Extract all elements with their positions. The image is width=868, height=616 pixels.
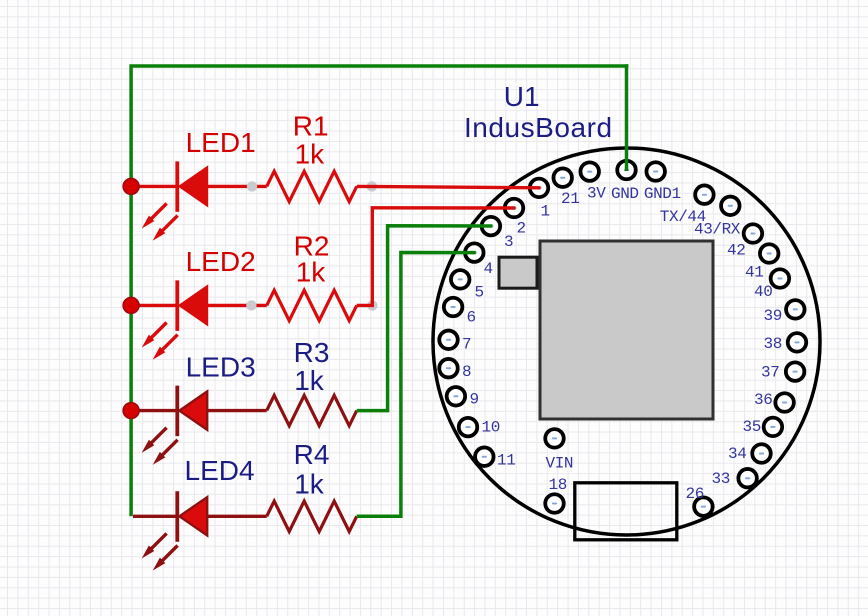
terminal dot R2 right (367, 300, 377, 310)
resistor R4 zigzag (267, 501, 357, 531)
terminal dot R1 right (367, 181, 377, 191)
svg-text:42: 42 (727, 242, 745, 260)
svg-text:35: 35 (743, 418, 761, 436)
pin 26 (694, 497, 713, 515)
svg-text:37: 37 (761, 364, 779, 382)
LED3 emission arrow b (154, 440, 178, 464)
wire: LED3 anode to R3 (207, 409, 267, 412)
svg-text:2: 2 (517, 220, 526, 238)
wire: LED2 row horizontal (131, 304, 175, 307)
U1 USB connector (575, 483, 677, 540)
svg-text:VIN: VIN (546, 455, 574, 473)
wire: LED4 anode to R4 (207, 515, 267, 518)
LED1 emission arrow b (154, 216, 178, 240)
LED1 triangle (179, 167, 207, 205)
svg-text:5: 5 (475, 283, 484, 301)
svg-text:U1: U1 (504, 81, 540, 112)
LED2 emission arrow b (154, 335, 178, 359)
svg-text:3V: 3V (587, 185, 606, 203)
pin 4 (465, 243, 484, 262)
pin 36 (775, 393, 794, 412)
LED2 emission arrow a (143, 323, 167, 347)
U1 board outline circle (433, 148, 820, 535)
svg-text:39: 39 (764, 307, 782, 325)
pin 35 (764, 418, 783, 437)
svg-text:6: 6 (467, 308, 476, 326)
wire: GND left rail and top run (131, 66, 628, 516)
pin 43/RX (721, 197, 740, 216)
svg-text:R4: R4 (294, 439, 330, 470)
pin 18 (545, 494, 564, 513)
wire: R1 to pin 1 (357, 186, 541, 187)
resistor R2 zigzag (267, 290, 357, 320)
svg-text:1: 1 (541, 203, 550, 221)
svg-text:10: 10 (482, 418, 500, 436)
svg-text:IndusBoard: IndusBoard (464, 112, 613, 143)
pin 8 (439, 359, 458, 378)
svg-text:1k: 1k (294, 469, 325, 500)
LED1 cathode bar (175, 161, 179, 212)
junction node LED2 (123, 297, 139, 313)
svg-text:36: 36 (754, 391, 772, 409)
svg-text:41: 41 (745, 263, 763, 281)
pin 21 (553, 168, 572, 187)
pin 37 (786, 362, 805, 381)
svg-text:21: 21 (561, 190, 579, 208)
svg-text:1k: 1k (296, 256, 327, 287)
pin 41 (760, 244, 779, 263)
wire: LED1 row horizontal (131, 185, 175, 188)
LED2 cathode bar (175, 280, 179, 331)
svg-text:4: 4 (484, 260, 493, 278)
pin 33 (738, 469, 757, 488)
pin 2 (505, 199, 524, 218)
U1 side connector (499, 257, 537, 288)
pin 3 (482, 217, 501, 236)
wire: LED3 row horizontal (131, 409, 175, 412)
svg-text:11: 11 (497, 452, 515, 470)
pin 6 (444, 298, 463, 317)
wire: R2 to pin 2 (357, 208, 516, 306)
svg-text:40: 40 (754, 283, 772, 301)
pin 7 (439, 331, 458, 350)
U1 chip body (540, 241, 713, 419)
resistor R1 zigzag (267, 171, 357, 201)
svg-text:3: 3 (504, 233, 513, 251)
junction node LED3 (123, 403, 139, 419)
pin 3V (580, 162, 599, 181)
pin 34 (752, 444, 771, 463)
pin VIN (545, 429, 564, 448)
svg-text:43/RX: 43/RX (694, 220, 741, 238)
pin 1 (530, 179, 549, 198)
pin TX/44 (695, 185, 714, 204)
svg-text:34: 34 (728, 445, 746, 463)
pin GND1 (646, 162, 665, 181)
wire: R3 to pin 3 (357, 226, 493, 411)
wire: GND drop into U1 GND pin (625, 64, 629, 171)
pin 39 (786, 300, 805, 319)
svg-text:8: 8 (462, 363, 471, 381)
svg-text:LED3: LED3 (186, 352, 256, 383)
terminal dot R2 left (246, 300, 256, 310)
wire: LED1 anode to R1 (207, 185, 267, 188)
LED4 triangle (179, 497, 207, 535)
svg-text:LED2: LED2 (186, 246, 256, 277)
pin 11 (475, 447, 494, 466)
svg-text:GND1: GND1 (644, 185, 681, 203)
pin 40 (771, 269, 790, 288)
resistor R3 zigzag (267, 395, 357, 425)
svg-text:33: 33 (712, 470, 730, 488)
wire: LED2 anode to R2 (207, 304, 267, 307)
svg-text:R1: R1 (293, 111, 329, 142)
svg-text:1k: 1k (295, 138, 326, 169)
pin GND (617, 161, 636, 180)
svg-text:GND: GND (611, 185, 639, 203)
svg-text:9: 9 (470, 390, 479, 408)
pin 42 (744, 224, 763, 243)
svg-text:7: 7 (462, 336, 471, 354)
pin 5 (451, 270, 470, 289)
svg-text:18: 18 (549, 476, 567, 494)
svg-text:LED1: LED1 (186, 127, 256, 158)
junction node LED1 (123, 178, 139, 194)
terminal dot R1 left (247, 181, 257, 191)
LED4 emission arrow b (154, 546, 178, 570)
LED3 triangle (179, 391, 207, 429)
LED3 cathode bar (175, 386, 179, 437)
svg-text:26: 26 (686, 485, 704, 503)
LED1 emission arrow a (143, 204, 167, 228)
pin 38 (788, 333, 807, 352)
pin 9 (447, 387, 466, 406)
svg-text:1k: 1k (294, 365, 325, 396)
wire: R4 to pin 4 (357, 253, 476, 517)
LED3 emission arrow a (143, 428, 167, 452)
LED4 emission arrow a (143, 533, 167, 557)
wire: LED4 row horizontal (133, 515, 176, 518)
svg-text:R3: R3 (294, 337, 330, 368)
svg-text:38: 38 (764, 335, 782, 353)
LED2 triangle (179, 286, 207, 324)
LED4 cathode bar (175, 491, 179, 542)
svg-text:LED4: LED4 (185, 455, 255, 486)
pin 10 (459, 418, 478, 437)
